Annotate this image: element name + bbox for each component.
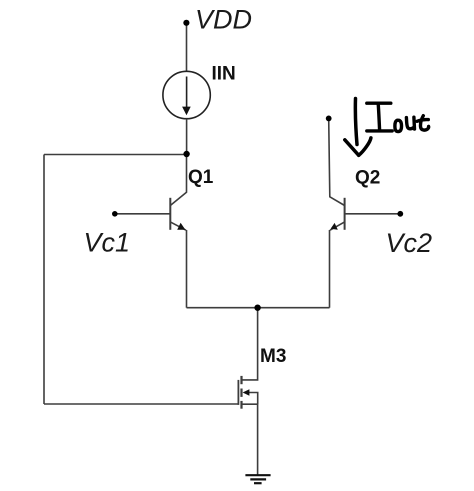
transistor Q2 base bar <box>344 198 346 230</box>
wire current source to node <box>186 119 188 154</box>
node Vc1 terminal dot <box>112 211 118 217</box>
svg-text:Vc2: Vc2 <box>386 228 433 258</box>
transistor Q2 emitter <box>330 222 345 230</box>
wire Q1 emitter down <box>186 230 188 308</box>
current source IIN circle <box>163 71 210 118</box>
mosfet M3 channel drain segment <box>240 376 242 384</box>
transistor Q1 base bar <box>169 198 171 230</box>
node VDD dot <box>183 20 189 26</box>
transistor Q1 emitter arrowhead <box>177 223 185 230</box>
current source arrow <box>186 77 188 108</box>
wire emitter bus <box>187 307 330 309</box>
wire M3 bulk tie <box>249 393 258 405</box>
node feedback junction dot <box>183 151 189 157</box>
transistor Q2 emitter arrowhead <box>331 223 338 230</box>
wire M3 source <box>242 404 258 475</box>
wire Q2 emitter down <box>329 230 331 308</box>
svg-text:Q2: Q2 <box>355 167 380 188</box>
node Vc2 terminal dot <box>397 211 403 217</box>
mosfet M3 channel body segment <box>240 389 242 397</box>
svg-text:M3: M3 <box>260 346 286 367</box>
wire M3 gate horizontal <box>44 403 238 405</box>
mosfet M3 bulk arrowhead <box>243 389 250 395</box>
svg-text:Q1: Q1 <box>188 167 214 188</box>
transistor Q2 collector wire <box>329 118 345 205</box>
wire Q2 base <box>345 213 401 215</box>
node emitter bus junction dot <box>254 305 260 311</box>
svg-text:VDD: VDD <box>195 5 252 35</box>
wire node to M3 drain <box>242 308 258 380</box>
transistor Q1 collector wire <box>170 154 186 206</box>
node Q2 collector terminal dot <box>326 116 332 122</box>
svg-text:Vc1: Vc1 <box>84 227 131 257</box>
wire feedback left horizontal <box>44 154 187 156</box>
handwritten label Iout <box>367 103 429 131</box>
transistor Q1 emitter <box>170 222 186 230</box>
svg-text:IIN: IIN <box>212 63 236 84</box>
mosfet M3 channel source segment <box>240 401 242 409</box>
mosfet M3 gate bar <box>237 380 239 405</box>
wire Q1 base <box>115 213 171 215</box>
handwritten Iout arrow <box>345 99 371 156</box>
wire VDD to current source <box>186 23 188 72</box>
wire feedback left vertical <box>43 155 45 405</box>
ground <box>245 475 270 483</box>
